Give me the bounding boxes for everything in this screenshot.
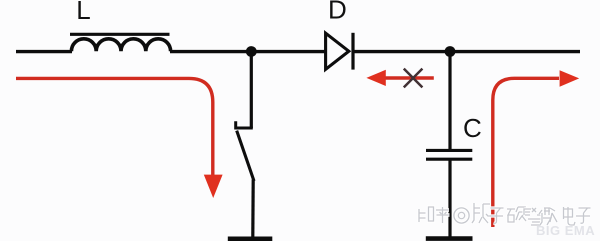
watermark glyph 子 (last) [576, 208, 591, 223]
wire diode-to-right segment [353, 50, 580, 53]
watermark glyph 微 [539, 208, 557, 225]
X cross mark over blocked arrow [404, 69, 423, 88]
switch blade (open) [237, 131, 254, 181]
red current arrow (input loop) shaft [16, 78, 213, 177]
svg-text:D: D [328, 0, 347, 25]
watermark glyph 子 [488, 208, 504, 223]
inductor L core bar [70, 33, 170, 36]
wire switch upper lead [250, 52, 253, 129]
inductor L coils [71, 39, 170, 51]
watermark at-sign [454, 208, 469, 223]
red current arrow (input loop) head [204, 175, 223, 198]
wire top-left segment [16, 50, 72, 53]
diode D triangle [326, 33, 349, 69]
wire capacitor upper lead [448, 52, 451, 150]
capacitor bottom terminal bar [426, 236, 473, 241]
switch bottom terminal bar [228, 237, 272, 241]
watermark glyph 张 [472, 203, 490, 223]
red blocked reverse-current arrow head [366, 70, 385, 86]
svg-text:BIG EMA: BIG EMA [536, 223, 595, 238]
red output current arrow shaft [493, 78, 559, 227]
node junction dot at capacitor branch [445, 46, 456, 57]
capacitor C bottom plate [426, 158, 472, 161]
node junction dot at switch branch [246, 46, 257, 57]
red blocked reverse-current arrow shaft [385, 76, 434, 79]
watermark glyph 知 [419, 207, 434, 222]
watermark zhihu text (pseudo CJK glyphs, white with gray outline) [419, 203, 591, 225]
wire inductor-to-diode segment [170, 50, 325, 53]
svg-text:L: L [76, 0, 90, 25]
switch fixed contact jog [236, 121, 253, 128]
svg-text:C: C [463, 113, 482, 143]
watermark glyph 整 [524, 208, 544, 225]
diode D cathode bar [351, 33, 354, 70]
watermark glyph 砍 [507, 207, 526, 222]
watermark glyph 乎 [436, 207, 450, 223]
wire switch lower lead [251, 180, 255, 238]
red output current arrow head [560, 70, 580, 87]
wire capacitor lower lead [448, 161, 451, 238]
watermark glyph 电 [564, 207, 576, 225]
capacitor C top plate [426, 149, 472, 152]
